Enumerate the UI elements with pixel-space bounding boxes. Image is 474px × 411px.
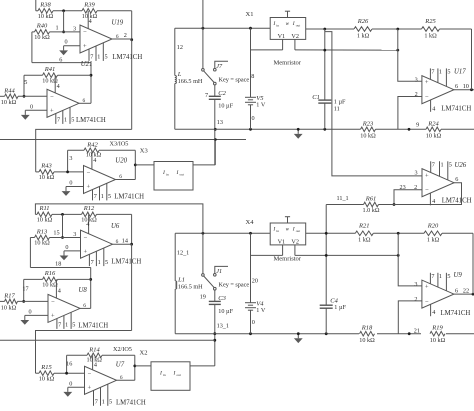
svg-text:166.5 mH: 166.5 mH [178, 78, 203, 85]
svg-text:U26: U26 [455, 162, 467, 169]
svg-text:4: 4 [58, 288, 61, 295]
svg-text:21: 21 [414, 327, 420, 334]
svg-text:0: 0 [65, 244, 68, 251]
svg-text:0: 0 [30, 103, 33, 110]
svg-text:10 kΩ: 10 kΩ [34, 240, 50, 247]
svg-text:6: 6 [120, 375, 123, 381]
svg-text:1 µF: 1 µF [334, 304, 346, 311]
svg-text:in: in [276, 23, 279, 27]
svg-text:LM741CH: LM741CH [111, 258, 141, 265]
svg-text:w: w [286, 226, 290, 232]
svg-text:w: w [286, 21, 290, 27]
svg-text:−: − [425, 299, 429, 306]
svg-text:R18: R18 [361, 324, 373, 331]
svg-text:7: 7 [58, 322, 61, 329]
svg-text:0: 0 [69, 380, 72, 387]
svg-text:R11: R11 [39, 205, 50, 212]
svg-text:R38: R38 [39, 2, 51, 9]
svg-text:7: 7 [90, 54, 93, 61]
svg-text:out: out [180, 173, 184, 177]
svg-text:1 kΩ: 1 kΩ [424, 32, 437, 39]
svg-text:5: 5 [24, 79, 27, 86]
svg-text:R24: R24 [427, 120, 439, 127]
svg-text:+: + [51, 313, 55, 320]
svg-text:166.5 mH: 166.5 mH [178, 283, 203, 290]
svg-text:U6: U6 [111, 223, 120, 230]
svg-text:1: 1 [55, 24, 58, 31]
svg-text:in: in [166, 173, 169, 177]
svg-text:10 kΩ: 10 kΩ [38, 13, 54, 20]
svg-text:10 kΩ: 10 kΩ [42, 282, 58, 289]
svg-text:4: 4 [89, 18, 92, 25]
svg-text:6: 6 [116, 34, 119, 40]
svg-text:R17: R17 [3, 292, 15, 299]
svg-text:U17: U17 [454, 68, 466, 75]
svg-text:17: 17 [22, 285, 28, 292]
svg-text:1: 1 [97, 54, 100, 61]
svg-text:LM741CH: LM741CH [116, 399, 146, 406]
svg-text:1: 1 [65, 322, 68, 329]
svg-text:13: 13 [217, 119, 223, 126]
svg-text:3: 3 [73, 26, 76, 33]
svg-text:1 V: 1 V [256, 102, 266, 109]
svg-text:LM741CH: LM741CH [78, 322, 108, 329]
svg-text:10 kΩ: 10 kΩ [39, 174, 55, 181]
svg-text:J7: J7 [216, 63, 223, 70]
svg-text:R23: R23 [362, 120, 374, 127]
svg-text:8: 8 [251, 73, 254, 80]
svg-text:10 kΩ: 10 kΩ [1, 99, 17, 106]
svg-text:−: − [425, 94, 429, 101]
svg-text:in: in [276, 229, 279, 233]
svg-text:in: in [163, 373, 166, 377]
svg-text:0: 0 [69, 179, 72, 186]
svg-text:19: 19 [200, 293, 206, 300]
svg-text:6: 6 [83, 98, 86, 104]
svg-text:2: 2 [415, 91, 418, 98]
svg-text:R15: R15 [40, 364, 52, 371]
svg-text:10 kΩ: 10 kΩ [1, 304, 17, 311]
svg-text:6: 6 [455, 83, 458, 90]
svg-text:4: 4 [94, 361, 97, 368]
svg-text:U8: U8 [79, 287, 88, 294]
svg-text:5: 5 [447, 273, 450, 280]
svg-text:10 kΩ: 10 kΩ [359, 337, 375, 344]
svg-text:10 kΩ: 10 kΩ [430, 337, 446, 344]
svg-text:10 kΩ: 10 kΩ [37, 217, 53, 224]
svg-text:22: 22 [463, 287, 469, 294]
svg-text:X3: X3 [140, 148, 148, 155]
svg-text:3: 3 [73, 231, 76, 238]
svg-text:+: + [88, 385, 92, 392]
svg-text:6: 6 [119, 174, 122, 180]
svg-text:7: 7 [94, 193, 97, 200]
svg-text:V1: V1 [278, 33, 286, 40]
svg-text:18: 18 [55, 260, 61, 267]
svg-text:5: 5 [71, 117, 74, 124]
svg-text:C2: C2 [218, 90, 226, 97]
svg-text:LM741CH: LM741CH [441, 310, 471, 317]
svg-text:R16: R16 [44, 270, 56, 277]
svg-text:J1: J1 [216, 268, 222, 275]
svg-text:1: 1 [64, 117, 67, 124]
svg-text:+: + [87, 184, 91, 191]
svg-text:Key = space: Key = space [219, 77, 250, 84]
svg-text:10 kΩ: 10 kΩ [34, 34, 50, 41]
svg-text:0: 0 [64, 39, 67, 46]
svg-text:1: 1 [439, 273, 442, 280]
svg-text:−: − [84, 234, 88, 241]
svg-text:7: 7 [205, 92, 208, 99]
svg-text:12: 12 [177, 44, 183, 51]
svg-text:R12: R12 [83, 205, 95, 212]
svg-text:C1: C1 [312, 94, 320, 101]
svg-text:Memristor: Memristor [274, 255, 302, 262]
svg-text:R42: R42 [86, 141, 98, 148]
svg-text:4: 4 [432, 106, 435, 113]
svg-text:7: 7 [95, 399, 98, 406]
svg-text:10 kΩ: 10 kΩ [360, 133, 376, 140]
svg-text:C3: C3 [218, 295, 226, 302]
svg-text:R14: R14 [88, 346, 100, 353]
svg-text:5: 5 [109, 399, 112, 406]
svg-text:out: out [296, 23, 300, 27]
svg-text:10 kΩ: 10 kΩ [426, 133, 442, 140]
svg-text:16: 16 [66, 361, 72, 368]
svg-text:R26: R26 [357, 18, 369, 25]
svg-text:R19: R19 [431, 324, 443, 331]
svg-text:out: out [177, 373, 181, 377]
svg-text:4: 4 [86, 221, 89, 228]
svg-text:11: 11 [334, 105, 340, 112]
svg-text:−: − [83, 29, 87, 36]
svg-text:2: 2 [124, 32, 127, 39]
svg-text:+: + [425, 79, 429, 86]
svg-text:−: − [88, 371, 92, 378]
svg-text:4: 4 [57, 83, 60, 90]
svg-text:L1: L1 [177, 276, 185, 283]
svg-text:7: 7 [57, 117, 60, 124]
svg-text:5: 5 [447, 69, 450, 76]
svg-text:R13: R13 [36, 228, 48, 235]
svg-text:13_1: 13_1 [217, 323, 229, 330]
svg-text:R40: R40 [36, 23, 48, 30]
svg-text:U9: U9 [454, 272, 463, 279]
svg-text:6: 6 [116, 239, 119, 245]
svg-text:1.0 kΩ: 1.0 kΩ [363, 207, 380, 214]
svg-text:5: 5 [105, 54, 108, 61]
svg-text:4: 4 [93, 157, 96, 164]
svg-text:10 kΩ: 10 kΩ [39, 376, 55, 383]
svg-text:R44: R44 [3, 87, 15, 94]
svg-text:LM741CH: LM741CH [114, 194, 144, 201]
svg-text:4: 4 [432, 309, 435, 316]
svg-text:U20: U20 [115, 158, 127, 165]
svg-text:3: 3 [414, 281, 417, 288]
svg-text:1: 1 [441, 162, 444, 169]
svg-text:R43: R43 [40, 163, 52, 170]
svg-text:R21: R21 [358, 222, 369, 229]
svg-text:1 V: 1 V [256, 307, 266, 314]
svg-text:2: 2 [414, 296, 417, 303]
svg-text:−: − [87, 170, 91, 177]
svg-text:0: 0 [252, 115, 255, 122]
svg-text:5: 5 [449, 162, 452, 169]
svg-text:R39: R39 [83, 2, 95, 9]
svg-text:+: + [50, 108, 54, 115]
svg-text:+: + [425, 284, 429, 291]
svg-text:LM741CH: LM741CH [441, 106, 471, 113]
svg-text:+: + [425, 172, 429, 179]
svg-text:6: 6 [455, 176, 458, 183]
svg-text:X1: X1 [246, 11, 254, 18]
svg-text:0: 0 [28, 308, 31, 315]
svg-text:V2: V2 [291, 33, 299, 40]
svg-text:−: − [425, 187, 429, 194]
svg-text:7: 7 [431, 69, 434, 76]
svg-text:20: 20 [252, 277, 258, 284]
svg-text:0: 0 [252, 319, 255, 326]
svg-text:10: 10 [463, 83, 469, 90]
svg-text:X2/IO5: X2/IO5 [113, 346, 132, 353]
svg-text:6: 6 [59, 57, 62, 64]
svg-text:U7: U7 [116, 361, 125, 368]
svg-text:1 kΩ: 1 kΩ [427, 237, 440, 244]
svg-text:10 µF: 10 µF [218, 103, 233, 110]
svg-text:X3/IO5: X3/IO5 [110, 141, 129, 148]
svg-text:3: 3 [69, 155, 72, 162]
svg-text:7: 7 [432, 162, 435, 169]
svg-text:4: 4 [432, 198, 435, 205]
svg-text:LM741CH: LM741CH [442, 197, 472, 204]
svg-text:1 kΩ: 1 kΩ [358, 237, 371, 244]
svg-text:15: 15 [53, 230, 59, 237]
svg-text:9: 9 [416, 122, 419, 129]
svg-text:Memristor: Memristor [274, 60, 302, 67]
svg-text:1: 1 [101, 193, 104, 200]
svg-text:U19: U19 [112, 20, 124, 27]
svg-text:7: 7 [91, 259, 94, 266]
svg-text:LM741CH: LM741CH [112, 54, 142, 61]
svg-text:X4: X4 [246, 219, 255, 226]
svg-text:R61: R61 [365, 195, 376, 202]
svg-text:3: 3 [415, 76, 418, 83]
svg-text:U21: U21 [81, 61, 93, 68]
svg-text:11_1: 11_1 [337, 195, 349, 202]
svg-text:R41: R41 [44, 66, 55, 73]
svg-text:23: 23 [400, 184, 406, 191]
svg-text:LM741CH: LM741CH [76, 117, 106, 124]
svg-text:1 kΩ: 1 kΩ [357, 32, 370, 39]
svg-text:1: 1 [102, 399, 105, 406]
svg-text:10 µF: 10 µF [218, 308, 233, 315]
svg-text:2: 2 [414, 184, 417, 191]
svg-text:−: − [51, 299, 55, 306]
svg-text:−: − [50, 94, 54, 101]
svg-text:12_1: 12_1 [177, 250, 189, 257]
svg-text:+: + [84, 248, 88, 255]
svg-text:5: 5 [105, 259, 108, 266]
svg-text:5: 5 [108, 193, 111, 200]
svg-text:6: 6 [455, 287, 458, 294]
svg-text:1: 1 [98, 259, 101, 266]
svg-text:7: 7 [431, 273, 434, 280]
svg-text:V1: V1 [278, 238, 286, 245]
svg-text:6: 6 [83, 303, 86, 309]
svg-text:R25: R25 [424, 18, 436, 25]
svg-text:V2: V2 [291, 238, 299, 245]
svg-text:+: + [83, 43, 87, 50]
svg-text:5: 5 [72, 322, 75, 329]
svg-text:3: 3 [415, 170, 418, 177]
svg-text:out: out [296, 229, 300, 233]
svg-text:14: 14 [122, 237, 128, 244]
svg-text:R20: R20 [427, 222, 439, 229]
svg-text:1: 1 [439, 69, 442, 76]
svg-text:X2: X2 [140, 350, 148, 357]
svg-text:Key = space: Key = space [219, 282, 250, 289]
